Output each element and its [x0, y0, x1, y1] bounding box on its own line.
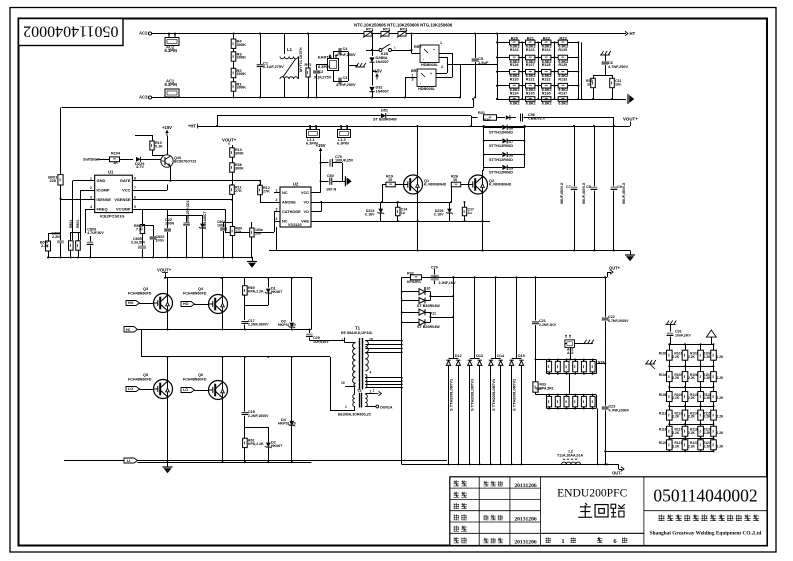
- svg-text:4.7nF,250V: 4.7nF,250V: [336, 83, 356, 87]
- svg-text:2.2N: 2.2N: [52, 235, 60, 239]
- svg-text:6.8K2: 6.8K2: [510, 101, 520, 105]
- svg-text:610: 610: [484, 118, 490, 122]
- svg-text:2.2NF,1KV: 2.2NF,1KV: [539, 323, 557, 327]
- wire big loop top rail: [62, 107, 473, 109]
- wire grid bottom to ground: [497, 99, 626, 101]
- load resistor R127 2.2K: [682, 426, 688, 436]
- resistor R105: [150, 141, 154, 150]
- svg-text:Shanghai Greatway Welding Equi: Shanghai Greatway Welding Equipment CO.,…: [650, 531, 762, 537]
- svg-text:R105: R105: [674, 373, 682, 377]
- wire VCOMP line: [139, 209, 225, 211]
- svg-text:-: -: [423, 57, 424, 61]
- capacitor C70 100uF/35V: [321, 162, 329, 164]
- svg-text:K.V60N60HD: K.V60N60HD: [424, 183, 447, 187]
- resistor R11 27K: [231, 184, 233, 186]
- capacitor C60 100N: [321, 181, 329, 183]
- svg-text:CBB,63.V: CBB,63.V: [528, 117, 546, 121]
- snubber resistor R54 row2: [581, 396, 586, 407]
- svg-text:S TTH200L06TV1: S TTH200L06TV1: [491, 378, 496, 411]
- svg-text:R125: R125: [558, 48, 567, 52]
- load resistor R110 2.2K: [667, 350, 673, 360]
- svg-text:R116: R116: [659, 427, 667, 431]
- capacitor C22 4.7nF/2000V: [605, 277, 607, 316]
- diode pair D12 STTH200L06TV1: [453, 277, 455, 358]
- resistor grid r3c4 6.8K: [558, 70, 567, 75]
- svg-text:050114040002: 050114040002: [23, 22, 118, 39]
- svg-text:LI: LI: [127, 459, 130, 463]
- svg-text:R123: R123: [526, 48, 535, 52]
- resistor R104 1K: [100, 159, 109, 161]
- load resistor R120 2.2K: [698, 392, 704, 402]
- snubber resistor R55 row2: [590, 396, 595, 407]
- ground arrow mid right: [630, 251, 632, 256]
- svg-text:R133: R133: [558, 77, 567, 81]
- diode D3 HKP51: [291, 278, 293, 322]
- wire U2 pin4 to bottom rail: [276, 227, 278, 251]
- svg-text:C4: C4: [343, 47, 349, 51]
- triangle symbol: [706, 330, 716, 337]
- svg-text:Q3: Q3: [143, 287, 148, 291]
- svg-text:R121: R121: [674, 441, 682, 445]
- svg-text:ANODE: ANODE: [282, 201, 296, 205]
- svg-text:R137: R137: [558, 91, 567, 95]
- resistor grid r2c4 6.8K: [558, 55, 567, 60]
- svg-text:100N: 100N: [165, 221, 174, 225]
- svg-text:4.7NF,250V: 4.7NF,250V: [608, 65, 628, 69]
- svg-text:2.2K: 2.2K: [41, 244, 49, 248]
- svg-text:6.3PIN: 6.3PIN: [337, 142, 349, 146]
- U2 pin stubs: [274, 192, 280, 194]
- resistor R804 7.5K: [140, 225, 144, 234]
- wire grid left bus: [497, 34, 499, 100]
- title block table: [450, 477, 767, 546]
- snubber resistor R44 row1: [581, 361, 586, 372]
- svg-text:050114040002: 050114040002: [653, 486, 757, 506]
- svg-text:D15: D15: [518, 354, 525, 358]
- svg-text:R111: R111: [703, 393, 711, 397]
- svg-text:R23: R23: [559, 35, 567, 40]
- connector LO1 gate Q5: [126, 387, 140, 392]
- wire U1 pin3 ISENSE to loop: [61, 199, 95, 201]
- capacitor C800 body: [57, 240, 64, 243]
- load resistor R126 2.2K: [667, 426, 673, 436]
- resistor grid r2c2 6.8K: [526, 55, 535, 60]
- svg-text:10: 10: [453, 178, 457, 182]
- +15V U2: [320, 148, 322, 154]
- load resistor R113 2.2K: [711, 350, 717, 360]
- transformer T1 core: [359, 338, 361, 390]
- svg-text:RR2: RR2: [414, 45, 421, 49]
- wire U2 VHE return rail: [317, 221, 490, 223]
- chassis ground above C6: [600, 54, 610, 56]
- diode D29 1N4007: [372, 50, 374, 56]
- load resistor R123 2.2K: [682, 410, 688, 420]
- svg-text:C.16V: C.16V: [365, 212, 375, 216]
- wire Q1 emitter: [417, 194, 419, 251]
- svg-text:D10: D10: [424, 287, 431, 291]
- connector LO2 gate Q6: [181, 388, 195, 393]
- wire bottom-section VOUT+ rail: [165, 277, 311, 279]
- svg-text:1: 1: [370, 390, 372, 394]
- diode D6a: [506, 115, 510, 119]
- connector UL2 6.3PIN: [338, 130, 351, 138]
- svg-text:R801: R801: [69, 219, 73, 228]
- diode D6 STTH12R06D: [484, 127, 502, 129]
- svg-text:68UF,450V.X: 68UF,450V.X: [582, 182, 586, 204]
- wire secondary bus vertical: [401, 277, 403, 464]
- wire diode stack left bus: [483, 126, 485, 167]
- T2 output terminal circle: [376, 405, 379, 408]
- svg-text:KPA,2.2K: KPA,2.2K: [248, 442, 264, 446]
- svg-text:R124: R124: [542, 48, 552, 52]
- load resistor R118 2.2K: [667, 392, 673, 402]
- connector AC2 6.3PIN: [165, 38, 179, 46]
- svg-text:27K: 27K: [263, 189, 270, 193]
- svg-text:VOUT+: VOUT+: [157, 268, 172, 273]
- svg-text:FCH48N60FD: FCH48N60FD: [183, 292, 207, 296]
- transformer T1 secondary lower: [365, 375, 367, 389]
- capacitor C17 2.2nF/1600V: [242, 321, 249, 323]
- load resistor R128 2.2K: [698, 426, 704, 436]
- svg-text:1: 1: [373, 389, 375, 393]
- svg-text:MYT01 1K3TH: MYT01 1K3TH: [299, 47, 303, 72]
- svg-text:6.3PIN: 6.3PIN: [165, 48, 178, 53]
- svg-text:1N4148CT: 1N4148CT: [203, 211, 207, 228]
- svg-text:KPS2R1: KPS2R1: [407, 280, 421, 284]
- electrolytic capacitor C29 1uF/630V: [309, 330, 311, 334]
- svg-text:10: 10: [388, 178, 392, 182]
- svg-text:0.1F,275V: 0.1F,275V: [314, 76, 332, 80]
- load resistor R115 2.2K: [682, 372, 688, 382]
- svg-text:2.2NF,1600V: 2.2NF,1600V: [248, 414, 269, 418]
- svg-text:ISENSE: ISENSE: [97, 197, 112, 202]
- wire grid mid verticals: [522, 42, 524, 99]
- diode D10 pair ST B30R04W: [402, 291, 419, 293]
- svg-text:R128: R128: [542, 63, 551, 67]
- diode D9 STTH12R06D: [484, 167, 502, 169]
- svg-text:6.3PIN: 6.3PIN: [165, 82, 178, 87]
- load resistor R130 2.2K: [667, 440, 673, 450]
- svg-text:VO: VO: [303, 201, 309, 205]
- svg-text:R22: R22: [543, 35, 551, 40]
- resistor grid r5c3 6.8K: [542, 97, 551, 102]
- load resistor R117 2.2K: [711, 372, 717, 382]
- wire VCC line: [139, 190, 167, 192]
- load resistor R111 2.2K: [682, 350, 688, 360]
- svg-text:R117: R117: [675, 427, 683, 431]
- svg-text:100 N: 100 N: [326, 188, 336, 192]
- ground under Q5: [167, 462, 169, 467]
- diode pair D14 STTH200L06TV1: [495, 277, 497, 358]
- diode D5 ST B30R04W: [217, 115, 381, 117]
- svg-text:+15V: +15V: [372, 68, 382, 73]
- svg-text:R108: R108: [659, 393, 667, 397]
- svg-text:+15V: +15V: [162, 125, 172, 130]
- svg-text:OUT+: OUT+: [609, 266, 621, 271]
- IGBT Q2 GT60N60HD: [469, 175, 488, 194]
- svg-text:AC2: AC2: [139, 31, 148, 36]
- svg-text:C8: C8: [586, 185, 592, 189]
- load resistor R133 2.2K: [711, 440, 717, 450]
- snubber resistor row 2: [536, 394, 547, 396]
- svg-text:STTH12R06D: STTH12R06D: [489, 131, 513, 135]
- resistor grid r1c2 6.8K: [526, 40, 535, 45]
- svg-text:4.7NF,2000V: 4.7NF,2000V: [609, 409, 630, 413]
- snubber resistor R42 row1: [564, 361, 569, 372]
- svg-text:R127: R127: [526, 63, 535, 67]
- connector UL1 6.3PIN: [307, 130, 320, 138]
- capacitor C801 100n: [220, 227, 227, 229]
- connector HO1 gate Q3: [126, 301, 140, 306]
- svg-text:6.8K2: 6.8K2: [542, 101, 552, 105]
- wire bridge A mid rail: [138, 329, 312, 331]
- wire big loop left vertical lower: [60, 185, 62, 258]
- svg-text:VOUT+: VOUT+: [222, 138, 237, 143]
- electrolytic capacitor C8 68uF/450V: [594, 126, 596, 186]
- svg-text:1N4007: 1N4007: [376, 89, 389, 93]
- svg-text:FREQ: FREQ: [97, 207, 108, 212]
- svg-text:2.2K: 2.2K: [688, 396, 696, 400]
- svg-text:+: +: [430, 72, 432, 76]
- resistor R12: [259, 184, 261, 186]
- wire top AC rail: [152, 33, 497, 35]
- capacitor C6 4.7nF/250V: [605, 55, 607, 61]
- svg-text:Q5: Q5: [143, 373, 149, 377]
- wire U2 VO pins tie: [321, 202, 323, 212]
- svg-text:D11: D11: [430, 312, 437, 316]
- svg-text:R103: R103: [703, 351, 711, 355]
- wire mid-section bottom rail: [269, 250, 630, 252]
- title: main circuit (Chinese): [578, 503, 592, 517]
- connector HI mid input: [124, 327, 138, 333]
- svg-text:R122: R122: [690, 441, 698, 445]
- company name (Chinese): [659, 515, 665, 521]
- svg-text:STTH12R06D: STTH12R06D: [489, 158, 513, 162]
- svg-text:U2: U2: [293, 182, 299, 187]
- resistor R1 300K: [231, 82, 236, 91]
- resistor grid r3c2 6.8K: [526, 70, 535, 75]
- terminal AC2: [148, 32, 151, 35]
- svg-text:HK06T: HK06T: [271, 290, 283, 294]
- wire row1 to right bus: [596, 363, 605, 365]
- diode pair D13 STTH200L06TV1: [474, 277, 476, 358]
- svg-text:300K: 300K: [235, 166, 244, 170]
- svg-text:300K: 300K: [235, 151, 244, 155]
- wire U1 pin2 ICOMP to left: [80, 190, 95, 192]
- diode D32 1N4007: [372, 71, 374, 86]
- svg-text:20131206: 20131206: [514, 483, 537, 489]
- svg-text:68UF,450V.X: 68UF,450V.X: [560, 182, 564, 204]
- svg-text:ST B30R04W: ST B30R04W: [417, 304, 440, 308]
- capacitor C1 0.1uF/275V: [260, 34, 262, 64]
- svg-text:KPA,2.2K: KPA,2.2K: [248, 289, 264, 293]
- transformer T2 secondary: [365, 394, 367, 406]
- snubber resistor R50 row2: [547, 396, 552, 407]
- wire control ground rail: [61, 257, 253, 259]
- svg-text:R102: R102: [690, 351, 698, 355]
- wire grid row 4: [497, 85, 578, 87]
- connector AJ2: [565, 340, 575, 348]
- transistor Q10 BC807: [161, 155, 173, 167]
- svg-text:R100: R100: [659, 351, 667, 355]
- resistor R802: [76, 241, 81, 250]
- document number stamp box (rotated): [19, 19, 124, 46]
- diode pair D15 STTH200L06TV1: [516, 277, 518, 358]
- svg-text:C7: C7: [566, 185, 571, 189]
- svg-text:1u: 1u: [401, 211, 405, 215]
- snubber resistor R41 row1: [555, 361, 560, 372]
- wire snubber row connections: [569, 374, 571, 395]
- svg-text:6.8K2: 6.8K2: [526, 101, 536, 105]
- resistor R001 228: [58, 175, 63, 185]
- wire T2 return: [354, 407, 356, 411]
- svg-text:10n: 10n: [615, 82, 622, 86]
- resistor R4 300K: [231, 39, 236, 48]
- svg-text:6: 6: [134, 196, 136, 200]
- svg-text:D12: D12: [455, 354, 462, 358]
- svg-text:R131: R131: [526, 77, 535, 81]
- chassis ground near EARTH: [348, 52, 350, 66]
- svg-text:20131206: 20131206: [514, 540, 537, 546]
- chassis ground above C31: [666, 324, 676, 326]
- svg-text:2.2K: 2.2K: [672, 444, 680, 448]
- wire VSENSE line: [139, 199, 232, 201]
- svg-text:BC807SOT23: BC807SOT23: [174, 159, 196, 163]
- connector HO2 gate Q4: [181, 302, 195, 307]
- wire bottom rail of bridge: [138, 462, 312, 464]
- svg-text:R132: R132: [542, 77, 551, 81]
- svg-text:2.2K: 2.2K: [717, 355, 725, 359]
- resistor R31 610: [471, 116, 473, 126]
- ground right-pointing at U2 aux: [342, 163, 344, 181]
- svg-text:OUT-: OUT-: [612, 471, 622, 476]
- svg-text:C20: C20: [431, 266, 438, 270]
- svg-text:300K: 300K: [237, 55, 247, 60]
- svg-text:VO: VO: [303, 210, 309, 214]
- svg-text:R136: R136: [542, 91, 551, 95]
- svg-text:GATE: GATE: [120, 178, 131, 183]
- svg-text:6.8K2: 6.8K2: [558, 101, 568, 105]
- load resistor R112 2.2K: [698, 350, 704, 360]
- svg-text:R110: R110: [690, 393, 698, 397]
- svg-text:4: 4: [276, 217, 278, 221]
- svg-text:2.2K: 2.2K: [704, 396, 712, 400]
- svg-text:VSENSE: VSENSE: [114, 197, 130, 202]
- svg-text:HDB008L: HDB008L: [418, 87, 436, 91]
- snubber resistor R52 row2: [564, 396, 569, 407]
- svg-text:R126: R126: [510, 63, 519, 67]
- svg-text:2.2K: 2.2K: [717, 431, 725, 435]
- transformer T1 primary winding: [344, 338, 346, 343]
- svg-text:27K: 27K: [235, 189, 242, 193]
- svg-text:68UF,450V.X: 68UF,450V.X: [622, 182, 626, 204]
- svg-text:R112: R112: [659, 411, 667, 415]
- svg-text:0.1UF,275V: 0.1UF,275V: [263, 64, 284, 69]
- title block row labels: [454, 480, 460, 486]
- svg-text:VCC: VCC: [122, 188, 131, 193]
- svg-text:8: 8: [134, 177, 136, 181]
- svg-text:SoftStart: SoftStart: [83, 156, 100, 161]
- svg-text:S TTH200L06TV1: S TTH200L06TV1: [470, 378, 475, 411]
- svg-text:HO: HO: [128, 301, 134, 305]
- svg-text:HO: HO: [183, 302, 189, 306]
- svg-text:R107: R107: [703, 373, 711, 377]
- wire U2 anode: [260, 202, 274, 204]
- svg-text:ENDU200PFC: ENDU200PFC: [557, 487, 627, 500]
- svg-text:4.7UF,50V: 4.7UF,50V: [87, 231, 104, 235]
- svg-text:STTH12R06D: STTH12R06D: [489, 171, 513, 175]
- wire loop right vertical to grid ground rail: [473, 99, 475, 108]
- wires bridge connections: [405, 77, 417, 79]
- svg-text:10: 10: [341, 381, 345, 385]
- svg-text:C60: C60: [327, 174, 334, 178]
- wire output top rail: [402, 277, 607, 279]
- svg-text:2.2K: 2.2K: [704, 444, 712, 448]
- svg-text:4.7V: 4.7V: [136, 165, 144, 169]
- load resistor R124 2.2K: [698, 410, 704, 420]
- zener DZ26 and capacitor C27 at Q2 gate return: [447, 209, 452, 213]
- resistor R19 10: [382, 185, 384, 203]
- designer name/date cells: [484, 481, 489, 486]
- resistor R61 KPA 2.2K: [243, 438, 248, 447]
- svg-text:EARTH: EARTH: [318, 55, 332, 60]
- connector EARTH 6.3PIN: [328, 59, 339, 71]
- svg-text:AC3: AC3: [139, 95, 148, 100]
- electrolytic capacitor C7 68uF/450V: [574, 126, 576, 186]
- wire diode stack right bus: [524, 126, 526, 167]
- svg-text:LO: LO: [128, 387, 133, 391]
- diode D2 HK06T: [268, 427, 270, 443]
- diode D11 pair ST B30R04W: [402, 312, 419, 314]
- load resistor R119 2.2K: [682, 392, 688, 402]
- svg-text:D51: D51: [381, 109, 389, 113]
- ground arrow top right: [627, 94, 629, 104]
- svg-text:R20: R20: [511, 35, 519, 40]
- load resistor R121 2.2K: [711, 392, 717, 402]
- wire bridge B mid rail: [141, 356, 330, 358]
- snubber resistor R40 row1: [547, 361, 552, 372]
- resistor R803 10K: [230, 227, 234, 236]
- svg-text:R129: R129: [558, 63, 567, 67]
- wire grid row 5: [497, 99, 578, 101]
- resistor grid r4c1 6.8K: [510, 83, 519, 88]
- connector AC1 6.3PIN: [165, 89, 179, 97]
- capacitor C2 0.1uF/275V: [316, 64, 318, 70]
- wires T1 secondary taps upper: [365, 340, 401, 342]
- wire grid row 1: [497, 42, 578, 44]
- resistor grid r3c1 6.8K: [510, 70, 519, 75]
- capacitor C5 1.5uF: [475, 34, 477, 59]
- electrolytic capacitor C9 68uF/450V: [613, 126, 615, 186]
- svg-text:4: 4: [90, 205, 92, 209]
- OUT- terminal: [607, 464, 619, 466]
- +15V arrow Q10: [166, 130, 168, 136]
- resistor grid r1c1 6.8K: [510, 40, 519, 45]
- svg-text:R123: R123: [703, 441, 711, 445]
- svg-text:20131206: 20131206: [514, 517, 537, 523]
- svg-text:GND: GND: [97, 178, 106, 183]
- svg-text:1: 1: [345, 405, 347, 409]
- wire grid row 3: [497, 71, 578, 73]
- svg-text:C.16V: C.16V: [434, 212, 444, 216]
- capacitor C23 4.7nF/2000V: [602, 406, 609, 408]
- svg-text:EE 85A/6.8,19*34L: EE 85A/6.8,19*34L: [341, 331, 374, 335]
- wire grid feed: [605, 451, 645, 453]
- svg-text:CATHODE: CATHODE: [282, 210, 301, 214]
- svg-text:S TTH200L06TV1: S TTH200L06TV1: [512, 378, 517, 411]
- svg-text:2.2K: 2.2K: [717, 444, 725, 448]
- svg-text:L1: L1: [287, 47, 293, 52]
